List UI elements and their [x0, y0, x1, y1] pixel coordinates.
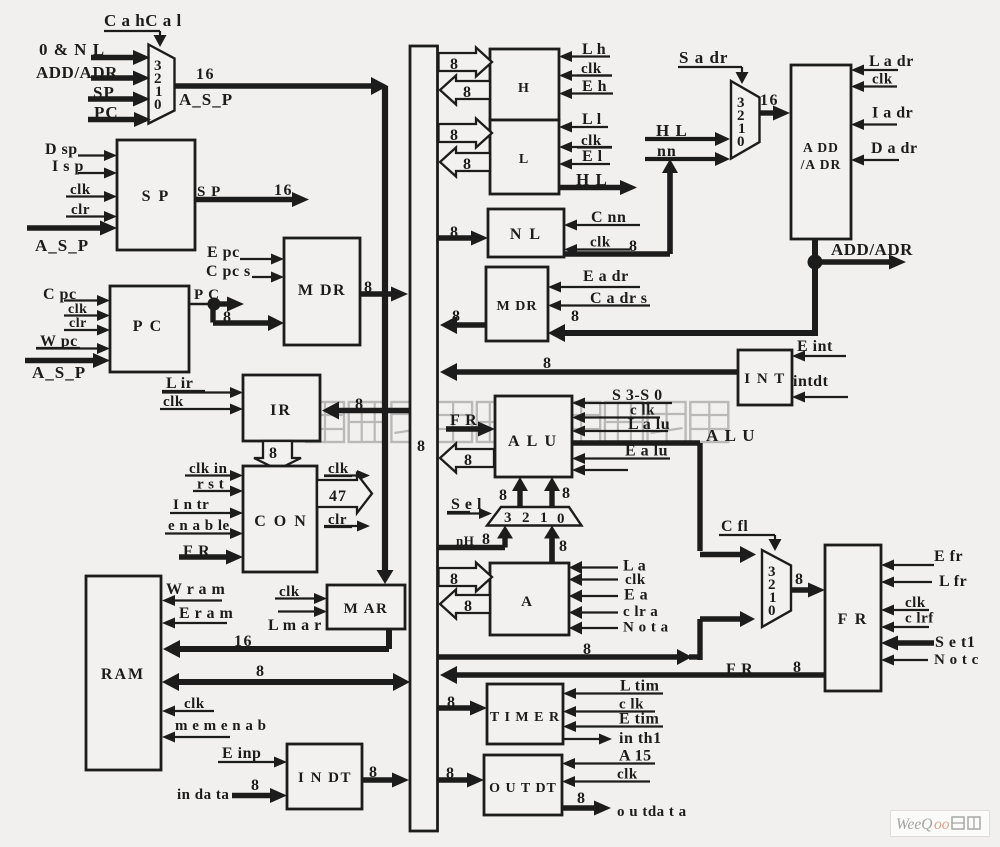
input A_S_P bus to SP [27, 221, 117, 256]
svg-text:16: 16 [760, 92, 779, 109]
wire 8 from INT to bus [440, 355, 738, 381]
svg-text:A 15: A 15 [619, 748, 652, 765]
svg-text:16: 16 [274, 182, 293, 199]
input Lmar to MAR [268, 606, 327, 634]
svg-text:clr: clr [69, 316, 87, 331]
input La to A [569, 558, 646, 575]
svg-text:E a lu: E a lu [625, 443, 668, 460]
svg-text:8: 8 [795, 571, 803, 588]
wire 8 from A to mux U3 [544, 526, 567, 564]
input Notc to FR [881, 652, 979, 668]
memory RAM block [86, 576, 161, 770]
svg-text:E pc: E pc [207, 244, 240, 261]
register IR block [243, 375, 320, 441]
svg-text:A L U: A L U [706, 426, 756, 445]
input clrf to FR [881, 611, 934, 633]
svg-text:L fr: L fr [939, 573, 967, 590]
svg-text:intdt: intdt [793, 373, 829, 390]
svg-text:in th1: in th1 [619, 730, 662, 747]
svg-text:8: 8 [463, 84, 471, 101]
svg-text:clk: clk [590, 235, 611, 251]
svg-text:M AR: M AR [344, 601, 389, 617]
wire FR 8 from FR block to bus [440, 659, 825, 684]
input clk to H [559, 61, 612, 81]
svg-text:8: 8 [559, 538, 567, 555]
input Ll to L [559, 111, 608, 133]
svg-text:T I M E R: T I M E R [490, 710, 560, 725]
svg-text:8: 8 [251, 777, 259, 794]
svg-text:E a dr: E a dr [583, 268, 629, 285]
svg-text:IR: IR [270, 402, 292, 419]
input Lalu to ALU [572, 416, 670, 437]
input Lir to IR [162, 375, 243, 398]
svg-text:S 3-S 0: S 3-S 0 [612, 387, 663, 404]
input Epc to MDR [207, 244, 284, 265]
interrupt INT block [738, 350, 792, 405]
svg-text:S a dr: S a dr [679, 48, 728, 67]
svg-text:E l: E l [582, 148, 603, 165]
svg-text:I N T: I N T [744, 371, 785, 387]
block arrow 8 bus to L [439, 119, 493, 148]
block arrow 8 bus to H [439, 48, 493, 77]
svg-text:O U T DT: O U T DT [489, 781, 557, 796]
svg-text:A DD: A DD [803, 140, 839, 155]
wire 8 mux U3 to ALU left input [499, 477, 528, 507]
output clk from CON [324, 461, 370, 481]
input clk to L [559, 133, 612, 153]
input Isp to SP [52, 158, 117, 179]
input S3-S0 to ALU [572, 387, 672, 409]
svg-text:C O N: C O N [254, 513, 308, 530]
svg-text:0: 0 [154, 97, 162, 113]
flag register FR block [825, 545, 881, 691]
input Nota to A [569, 620, 669, 636]
svg-text:16: 16 [196, 66, 215, 83]
svg-text:L tim: L tim [620, 678, 660, 695]
svg-text:8: 8 [269, 445, 277, 462]
svg-text:8: 8 [499, 487, 507, 504]
svg-text:c lrf: c lrf [905, 611, 934, 627]
block arrow 8 A to bus [440, 590, 490, 619]
OUTDT block [484, 755, 562, 815]
register ADD/ADR block [791, 65, 851, 239]
svg-text:D a dr: D a dr [871, 140, 918, 157]
A_S_P 16-bit bus from mux U1, right then down to MAR [174, 66, 394, 584]
svg-text:/A DR: /A DR [800, 157, 842, 172]
svg-text:8: 8 [571, 308, 579, 325]
input El to L [559, 148, 610, 170]
svg-text:N o t a: N o t a [623, 620, 669, 636]
block arrow 8 bus to A [439, 563, 493, 592]
svg-text:N L: N L [510, 226, 542, 243]
input Dsp to SP [45, 141, 117, 161]
svg-text:8: 8 [256, 663, 264, 680]
svg-text:8: 8 [562, 485, 570, 502]
svg-text:D sp: D sp [45, 141, 78, 158]
input clk to IR [160, 394, 243, 415]
input clk to ADD/ADR [851, 72, 897, 93]
register MDR (right) block [486, 267, 548, 341]
register NL block [488, 209, 564, 257]
input FR to CON [179, 543, 243, 565]
input Ealu to ALU [572, 443, 670, 465]
register MDR (left) block [284, 238, 360, 345]
svg-text:L m a r: L m a r [268, 617, 322, 634]
svg-text:8: 8 [463, 156, 471, 173]
svg-text:RAM: RAM [101, 666, 145, 683]
mux U1 select input CahCal [104, 11, 182, 47]
input Ea to A [569, 587, 648, 604]
svg-text:3: 3 [504, 510, 512, 526]
input Set1 to FR [881, 634, 975, 651]
input clk to NL [564, 235, 630, 256]
output 8 from MDR to internal bus [360, 279, 408, 302]
input indata to INDT [177, 777, 287, 803]
svg-text:clk: clk [184, 696, 205, 712]
block arrow 8 H to bus [440, 76, 490, 105]
svg-text:1: 1 [540, 510, 548, 526]
svg-text:m e m e n a b: m e m e n a b [175, 718, 267, 734]
svg-text:L a dr: L a dr [869, 53, 914, 70]
svg-text:E a: E a [624, 587, 648, 604]
block arrow 8 from IR down to CON [254, 441, 301, 470]
mux U3 (ALU operand selector 3 2 1 0) [487, 507, 582, 527]
input A_S_P bus to PC [25, 353, 110, 382]
svg-text:E tim: E tim [619, 711, 659, 728]
input Ladr to ADD/ADR [851, 53, 914, 76]
wire nn 8 from NL right and up to mux U2 [564, 159, 678, 255]
input clk to A [569, 572, 646, 588]
input Ltim to TIMER [563, 678, 663, 700]
control unit CON block [243, 466, 317, 572]
input Eadr to MDR [548, 268, 640, 293]
wire ADD/ADR to MDR (from node under ADD/ADR) [548, 262, 818, 342]
output 8 from INDT to bus [362, 764, 409, 788]
svg-text:S P: S P [142, 188, 171, 205]
output 8 from MDR to bus [440, 308, 486, 334]
svg-text:A: A [521, 594, 533, 610]
ALU block [495, 396, 572, 477]
svg-text:N o t c: N o t c [934, 652, 979, 668]
output inth1 from TIMER [563, 730, 662, 747]
input memenab to RAM [162, 718, 267, 743]
wire 8 from bus to IR [322, 396, 410, 420]
input rst to CON [193, 477, 243, 497]
input Eram to RAM [162, 605, 233, 629]
input Einp to INDT [218, 745, 287, 768]
svg-text:8: 8 [450, 127, 458, 144]
output 47 control lines block arrow from CON [317, 474, 372, 513]
register MAR block [327, 585, 405, 629]
svg-text:F R: F R [838, 611, 869, 628]
output ADD/ADR with node [808, 239, 914, 270]
svg-text:E fr: E fr [934, 548, 963, 565]
input Eint to INT [792, 338, 846, 362]
svg-text:c lr a: c lr a [623, 604, 658, 620]
mux U2 (address selector 3-2-1-0) [731, 81, 760, 159]
wire 8 from bus to mux U4 (stepped) [438, 611, 755, 665]
wire 8 bus to TIMER [438, 694, 487, 716]
input intdt to INT [792, 373, 848, 403]
TIMER block [487, 684, 563, 744]
register L block [490, 120, 559, 194]
input clr to PC [64, 316, 110, 336]
WeeQoo watermark logo [891, 811, 990, 837]
block arrow 8 L to bus [440, 148, 490, 177]
svg-text:M DR: M DR [298, 282, 346, 299]
input Iadr to ADD/ADR [851, 105, 913, 131]
input Cnn to NL [564, 209, 640, 231]
wire 8 bus to OUTDT [438, 765, 484, 788]
output PC with node and 8-bit branch to MDR [189, 287, 284, 331]
svg-text:47: 47 [329, 488, 347, 505]
input wire to ALU lower right [572, 465, 628, 476]
register SP block [117, 140, 195, 250]
input clk to PC [64, 302, 110, 321]
output clr from CON [324, 512, 370, 532]
output outdata from OUTDT [562, 790, 687, 820]
accumulator A block [490, 563, 569, 635]
register PC block [110, 286, 189, 372]
input Intr to CON [170, 497, 243, 519]
svg-text:clk: clk [163, 394, 184, 410]
svg-text:M DR: M DR [497, 299, 538, 314]
input Etim to TIMER [563, 711, 663, 733]
wire HL into mux U2 [645, 121, 730, 146]
svg-text:C nn: C nn [591, 209, 626, 226]
svg-text:I N DT: I N DT [298, 770, 352, 786]
svg-text:8: 8 [577, 790, 585, 807]
svg-text:in da ta: in da ta [177, 787, 229, 803]
input clk to FR [881, 595, 929, 616]
svg-text:0: 0 [768, 603, 776, 619]
svg-text:2: 2 [522, 510, 530, 526]
internal 8-bit data bus (vertical) [410, 46, 438, 831]
output ALU wire right then down to mux U4 [572, 426, 756, 563]
input Cpc to PC [43, 286, 110, 306]
svg-text:8: 8 [464, 598, 472, 615]
input Wpc to PC [36, 333, 110, 354]
svg-text:8: 8 [450, 56, 458, 73]
mux U4 select input Cfl [719, 518, 782, 551]
svg-text:8: 8 [464, 452, 472, 469]
svg-text:e n a b le: e n a b le [168, 518, 230, 534]
svg-text:0: 0 [737, 134, 745, 150]
svg-text:0: 0 [557, 511, 565, 527]
wire 8 from mux U4 to FR [791, 571, 825, 598]
input Lfr to FR [881, 573, 967, 590]
svg-text:S e t1: S e t1 [935, 634, 975, 651]
input Cadrs to MDR [548, 290, 650, 311]
input A15 to OUTDT [562, 748, 655, 770]
input Eh to H [559, 78, 613, 99]
svg-text:clk: clk [872, 72, 893, 88]
wire nn into mux U2 [645, 143, 730, 166]
svg-text:L: L [519, 152, 529, 167]
input Cpcs to MDR [206, 263, 284, 283]
svg-text:ADD/ADR: ADD/ADR [831, 240, 913, 259]
input/output INDT block [287, 744, 362, 809]
svg-text:oo: oo [934, 816, 950, 833]
input clk to RAM [162, 696, 214, 717]
input Lh to H [559, 41, 610, 62]
input Efr to FR [881, 548, 963, 571]
block arrow 8 ALU to bus [440, 444, 494, 473]
svg-text:A L U: A L U [508, 433, 558, 450]
svg-text:A_S_P: A_S_P [32, 363, 86, 382]
svg-text:S e l: S e l [451, 496, 482, 513]
input clk to OUTDT [562, 767, 650, 788]
svg-text:C pc s: C pc s [206, 263, 251, 280]
input clk to TIMER [563, 697, 655, 718]
input clk to SP [66, 182, 117, 202]
svg-text:I a dr: I a dr [872, 105, 913, 122]
output SP 16-bit [195, 182, 309, 207]
svg-text:C a hC a l: C a hC a l [104, 11, 182, 30]
output HL from L [559, 170, 637, 195]
input ADD/ADR to mux U1 [36, 63, 150, 86]
data bus 8 between RAM and internal bus [162, 663, 410, 691]
output 16 from mux U2 to ADD/ADR [759, 92, 790, 121]
svg-text:A_S_P: A_S_P [179, 90, 233, 109]
input 0 &amp; NL to mux U1 [39, 40, 150, 65]
svg-text:L ir: L ir [166, 375, 193, 392]
svg-text:H: H [518, 81, 530, 96]
mux U2 select input Sadr [678, 48, 749, 84]
input clkin to CON [185, 461, 243, 481]
svg-text:L l: L l [582, 111, 602, 128]
svg-text:clk: clk [905, 595, 926, 611]
select input Sel to mux U3 [447, 496, 492, 519]
input clk to MAR [275, 584, 327, 604]
input clk to ALU [572, 403, 660, 424]
address bus 16 from MAR to RAM [163, 629, 389, 658]
mux U1 (A_S_P source selector 3-2-1-0) [149, 45, 175, 124]
svg-text:8: 8 [450, 571, 458, 588]
input FR to ALU [446, 412, 495, 437]
input enable to CON [165, 518, 243, 539]
svg-text:o u tda t a: o u tda t a [617, 804, 687, 820]
input Wram to RAM [162, 581, 226, 606]
svg-text:P C: P C [133, 318, 163, 335]
watermark hangzhou text (grey) [306, 402, 728, 442]
wire 8 mux U3 to ALU right input [544, 477, 570, 507]
input clra to A [569, 604, 658, 620]
mux U4 (flag selector 3-2-1-0) [762, 550, 791, 627]
svg-text:I n tr: I n tr [173, 497, 209, 513]
svg-text:E inp: E inp [222, 745, 261, 762]
svg-text:clk: clk [617, 767, 638, 783]
input SP to mux U1 [88, 83, 150, 107]
wire nH 8 from bus to mux U3 [438, 526, 513, 549]
svg-text:E r a m: E r a m [179, 605, 233, 622]
input clr to SP [66, 202, 117, 222]
input Dadr to ADD/ADR [851, 140, 918, 166]
svg-text:8: 8 [417, 438, 425, 455]
svg-text:WeeQ: WeeQ [896, 816, 932, 833]
input PC to mux U1 [88, 103, 151, 127]
svg-text:A_S_P: A_S_P [35, 236, 89, 255]
svg-text:C fl: C fl [721, 518, 748, 535]
register H block [490, 49, 559, 120]
wire 8 bus to NL [438, 224, 488, 246]
